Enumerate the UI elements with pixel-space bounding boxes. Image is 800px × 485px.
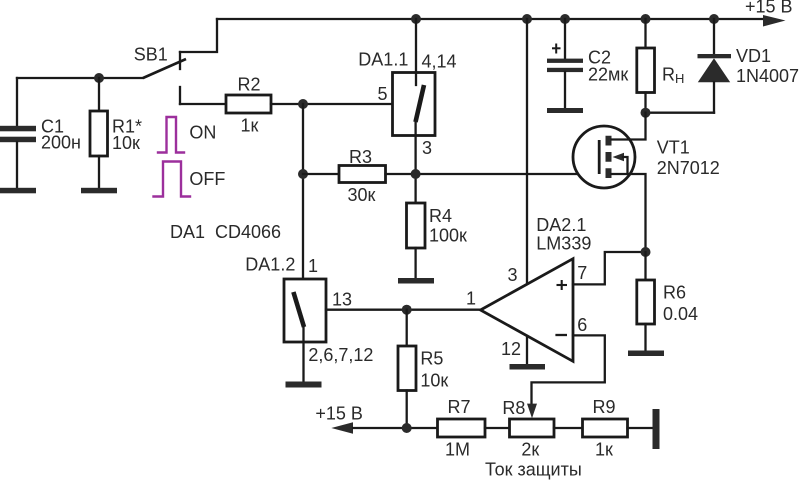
plus sign C2 bbox=[552, 44, 561, 54]
svg-text:R4: R4 bbox=[429, 206, 452, 226]
capacitor C2 bbox=[547, 19, 583, 108]
svg-text:R7: R7 bbox=[448, 397, 471, 417]
svg-text:100к: 100к bbox=[429, 226, 467, 246]
wire bottom rail bbox=[353, 427, 438, 429]
svg-text:200н: 200н bbox=[41, 133, 81, 153]
resistor R4 bbox=[407, 203, 426, 278]
svg-text:R5: R5 bbox=[420, 349, 443, 369]
svg-text:VT1: VT1 bbox=[657, 138, 690, 158]
wire C1/R1 to switch bbox=[17, 77, 143, 79]
wire pin7 to R6 node bbox=[573, 252, 646, 284]
op-amp DA2.1 bbox=[481, 259, 574, 362]
node R5 branch bbox=[402, 305, 412, 315]
wire R8-R9 bbox=[554, 427, 583, 429]
wire R7-R8 bbox=[485, 427, 510, 429]
svg-text:1: 1 bbox=[308, 256, 318, 276]
resistor R2 bbox=[226, 95, 271, 113]
svg-text:2,6,7,12: 2,6,7,12 bbox=[308, 345, 373, 365]
wire R2 to DA1.1 pin5 bbox=[271, 103, 393, 105]
svg-text:3: 3 bbox=[422, 138, 432, 158]
resistor R9 bbox=[583, 419, 628, 437]
svg-text:2к: 2к bbox=[521, 440, 539, 460]
svg-text:ON: ON bbox=[189, 122, 216, 142]
ground DA1.2 bbox=[286, 382, 322, 388]
svg-text:R8: R8 bbox=[502, 398, 525, 418]
svg-text:5: 5 bbox=[378, 84, 388, 104]
svg-text:12: 12 bbox=[501, 339, 521, 359]
wire R9 to terminal bbox=[628, 427, 653, 429]
node R2-DA1.2 branch bbox=[298, 99, 308, 109]
svg-text:3: 3 bbox=[508, 265, 518, 285]
pulse OFF bbox=[154, 162, 191, 197]
svg-text:10к: 10к bbox=[112, 133, 140, 153]
wire SB1 lower contact to R2 bbox=[180, 103, 226, 105]
node VT1-R6-pin7 bbox=[641, 247, 651, 257]
wire SB1 top contact to rail bbox=[180, 19, 217, 52]
capacitor C1 bbox=[0, 78, 36, 188]
node rail-DA1.1 bbox=[411, 14, 421, 24]
svg-text:22мк: 22мк bbox=[588, 64, 628, 84]
node R5-bottom bbox=[402, 423, 412, 433]
analog switch DA1.1 bbox=[393, 19, 436, 203]
switch SB1 bbox=[143, 52, 186, 104]
resistor R5 bbox=[398, 310, 416, 428]
transistor VT1 MOSFET bbox=[573, 113, 646, 252]
svg-text:2N7012: 2N7012 bbox=[657, 158, 720, 178]
svg-text:VD1: VD1 bbox=[736, 46, 771, 66]
wire down to DA1.2 bbox=[302, 104, 304, 291]
svg-text:30к: 30к bbox=[348, 185, 376, 205]
svg-text:1M: 1M bbox=[445, 440, 470, 460]
node R3-R4-DA1.1 bbox=[411, 169, 421, 179]
ground pin12 bbox=[510, 364, 546, 370]
svg-text:R9: R9 bbox=[593, 397, 616, 417]
svg-text:LM339: LM339 bbox=[536, 234, 591, 254]
wiper arrow R8 bbox=[527, 404, 537, 419]
svg-text:+15 В: +15 В bbox=[315, 404, 363, 424]
arrow +15V rail bbox=[763, 15, 786, 27]
svg-text:1: 1 bbox=[466, 289, 476, 309]
ground C2 bbox=[547, 108, 583, 113]
node rail-C2 bbox=[560, 14, 570, 24]
resistor R1 bbox=[90, 78, 108, 188]
ground R4 bbox=[398, 278, 434, 284]
resistor R3 bbox=[303, 166, 386, 183]
node rail-RH bbox=[641, 14, 651, 24]
svg-text:OFF: OFF bbox=[189, 169, 225, 189]
svg-text:0.04: 0.04 bbox=[663, 304, 698, 324]
wire pin13 to comparator pin1 bbox=[326, 309, 481, 311]
pulse ON bbox=[158, 117, 184, 153]
analog switch DA1.2 bbox=[284, 279, 326, 382]
diode VD1 bbox=[698, 19, 732, 113]
arrow to +15V bottom bbox=[331, 422, 353, 433]
wire rail to comparator pin3 bbox=[526, 19, 528, 284]
svg-text:13: 13 bbox=[332, 290, 352, 310]
resistor R7 bbox=[438, 419, 486, 437]
svg-text:R6: R6 bbox=[663, 282, 686, 302]
svg-text:+15 В: +15 В bbox=[745, 0, 793, 17]
svg-text:DA1 CD4066: DA1 CD4066 bbox=[170, 222, 281, 242]
wire +15V top rail bbox=[217, 18, 766, 20]
resistor R6 bbox=[637, 252, 655, 351]
svg-text:DA2.1: DA2.1 bbox=[536, 215, 586, 235]
svg-text:1к: 1к bbox=[595, 440, 613, 460]
svg-text:1к: 1к bbox=[241, 116, 259, 136]
resistor RH bbox=[637, 19, 655, 113]
node C1-R1-SB1 bbox=[94, 73, 104, 83]
svg-text:R3: R3 bbox=[349, 147, 372, 167]
wire R3 to gate bbox=[386, 173, 600, 175]
svg-text:7: 7 bbox=[577, 263, 587, 283]
wire VD1 anode to RH/VT1 node bbox=[646, 112, 715, 114]
svg-text:DA1.1: DA1.1 bbox=[358, 50, 408, 70]
wire pin12 to ground bbox=[526, 336, 528, 364]
ground R6 bbox=[628, 351, 664, 357]
svg-text:6: 6 bbox=[577, 315, 587, 335]
ground R1 bbox=[81, 188, 117, 194]
ground C1 bbox=[0, 188, 36, 194]
svg-text:10к: 10к bbox=[420, 371, 448, 391]
svg-text:Ток защиты: Ток защиты bbox=[485, 460, 582, 480]
svg-text:DA1.2: DA1.2 bbox=[245, 255, 295, 275]
node rail-VD1 bbox=[709, 14, 719, 24]
svg-text:R2: R2 bbox=[238, 75, 261, 95]
potentiometer R8 bbox=[510, 419, 555, 437]
svg-text:1N4007: 1N4007 bbox=[736, 66, 799, 86]
terminal bar bbox=[653, 409, 660, 449]
svg-text:SB1: SB1 bbox=[134, 44, 168, 64]
node rail-pin3 bbox=[522, 14, 532, 24]
wire pin6 to R8 wiper bbox=[532, 335, 605, 411]
svg-text:4,14: 4,14 bbox=[422, 52, 457, 72]
node R3 branch bbox=[298, 169, 308, 179]
node RH-VD1-VT1 bbox=[641, 108, 651, 118]
